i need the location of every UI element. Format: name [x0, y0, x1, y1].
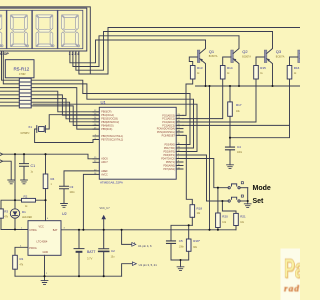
- svg-text:Q2: Q2: [242, 49, 248, 54]
- svg-text:R2: R2: [24, 194, 28, 198]
- transistor Q1 BC807: [197, 50, 200, 63]
- capacitor C2: [99, 230, 109, 276]
- svg-text:LED-RED: LED-RED: [22, 217, 32, 219]
- wire: display common wrap over top: [0, 7, 90, 74]
- connector arrow U1 pin 3,5,21: [132, 262, 136, 266]
- U2 pin name labels: [29, 226, 58, 255]
- svg-text:PB4(MISO): PB4(MISO): [101, 124, 113, 127]
- svg-text:C3: C3: [70, 185, 74, 189]
- ground below C5/R19: [177, 267, 184, 271]
- svg-text:rad: rad: [284, 284, 300, 294]
- wire: AVCC to rail: [83, 174, 99, 229]
- resistor R3 partial at edge: [0, 209, 3, 218]
- wire: VCC top-left feed: [3, 154, 100, 159]
- wire: R6 to PD1 over U1: [31, 84, 193, 148]
- display DIS1 4-digit 7-segment module: [0, 8, 87, 51]
- transistor Q4 BC807 partial at edge: [298, 50, 301, 63]
- svg-text:100n: 100n: [179, 247, 185, 249]
- ground below C1: [21, 180, 28, 184]
- U1 pin name labels: [101, 111, 175, 177]
- wire: R8 to PB0: [31, 91, 99, 112]
- svg-text:BC807A: BC807A: [276, 56, 285, 59]
- svg-text:C4: C4: [237, 145, 241, 149]
- svg-text:Set: Set: [253, 198, 265, 205]
- svg-text:Q1: Q1: [209, 49, 215, 54]
- connector arrow U1 pin 4,6: [132, 243, 136, 247]
- wire: to ground left: [3, 161, 12, 180]
- wire: X1 to PB6/XTAL1: [45, 115, 99, 129]
- resistor R13: [190, 66, 195, 80]
- svg-text:VCC: VCC: [39, 226, 44, 229]
- ground left edge: [8, 180, 15, 184]
- pushbutton S1 Mode: [228, 187, 230, 189]
- wire: display common pin 3 to Q3 collector rail: [76, 32, 273, 71]
- svg-text:Q3: Q3: [276, 49, 282, 54]
- wire: U2 GND pin to rail: [44, 255, 46, 280]
- wire: R9 to PB1: [31, 95, 99, 115]
- resistor R1: [13, 255, 18, 269]
- pushbutton S2 Set: [228, 200, 230, 202]
- U1 left pin stubs: [93, 112, 99, 163]
- resistor R20: [216, 213, 221, 228]
- svg-text:3.7V: 3.7V: [87, 257, 93, 261]
- svg-text:PC6/RESET: PC6/RESET: [162, 134, 176, 137]
- svg-text:R16: R16: [294, 66, 300, 70]
- svg-text:U2: U2: [62, 212, 67, 216]
- ground below C4: [227, 165, 234, 169]
- svg-text:ATMEGA8_32PA: ATMEGA8_32PA: [100, 181, 123, 185]
- wire: PB6 stub: [93, 135, 99, 137]
- svg-text:D1: D1: [22, 210, 26, 214]
- MCU U1 ATMEGA8 box: [99, 107, 176, 179]
- digit cell 3: [32, 10, 57, 48]
- digit cell 4: [58, 10, 83, 48]
- svg-text:U1 pin 3, 5, 21: U1 pin 3, 5, 21: [139, 263, 158, 267]
- wire: VCC 3.7V rail: [61, 229, 236, 231]
- wire: Set node to R21: [222, 201, 236, 213]
- svg-text:U1: U1: [101, 100, 107, 105]
- svg-text:R15: R15: [260, 66, 266, 70]
- resistor R14: [220, 66, 225, 80]
- wire: Mode node to R20: [217, 188, 219, 213]
- ground below buttons: [244, 204, 251, 208]
- svg-text:VCC_3.7: VCC_3.7: [100, 207, 111, 210]
- wire: PROG pin to R1: [15, 247, 28, 255]
- svg-text:C5: C5: [179, 239, 183, 243]
- ground below U2: [41, 281, 48, 285]
- wire: R11 to PB3: [31, 102, 99, 122]
- wire: C4 node U-turn right: [230, 125, 290, 137]
- wire: ground rail to U1 pin 3,5,21 connector: [122, 264, 133, 277]
- digit cell 2: [7, 10, 32, 48]
- svg-text:AVCC: AVCC: [101, 173, 108, 176]
- wire: display segment leads from left edge: [0, 88, 19, 106]
- wire: PD4 to Mode button: [183, 159, 228, 188]
- wire: VCC rail to bottom rail long vertical: [209, 86, 211, 230]
- wire: AREF to C3: [64, 171, 99, 186]
- svg-text:BATT: BATT: [87, 250, 95, 254]
- resistor R4: [43, 174, 48, 189]
- digit cell 1: [0, 10, 6, 48]
- svg-text:R1: R1: [20, 257, 24, 261]
- resistor network R5-R12 label box: [5, 60, 34, 78]
- svg-text:LTC4054: LTC4054: [37, 240, 48, 244]
- transistor Q2 BC807: [231, 50, 234, 63]
- watermark Pa letters: [284, 253, 315, 285]
- svg-text:X1: X1: [28, 125, 32, 129]
- resistor R19: [186, 239, 191, 251]
- svg-text:100n: 100n: [70, 192, 76, 194]
- svg-text:C OP: C OP: [0, 52, 9, 56]
- wire: PC6 reset to R18: [183, 135, 192, 204]
- svg-text:100n: 100n: [237, 152, 243, 154]
- charger U2 LTC4054 box: [28, 221, 61, 256]
- power flag VCC_3.7: [103, 219, 105, 230]
- wire: display common pin 1 to Q1 collector rail: [70, 40, 206, 63]
- svg-text:R4: R4: [51, 177, 55, 181]
- svg-text:PROG: PROG: [29, 247, 36, 250]
- svg-text:PB1(OC1A): PB1(OC1A): [101, 114, 114, 117]
- wire: R12 to PB4: [31, 106, 99, 126]
- off-page connector left top: [0, 152, 3, 156]
- resistor R15: [254, 66, 259, 80]
- svg-text:R20: R20: [222, 215, 228, 219]
- wire: R13 to PC0: [183, 79, 193, 115]
- wire: vertical from top rail to D1: [14, 154, 16, 200]
- wire: ground rail bottom left: [15, 275, 122, 277]
- U1 right pin stubs: [176, 115, 183, 169]
- capacitor C5: [167, 241, 176, 244]
- wire: display segment a lead: [2, 51, 20, 80]
- svg-text:R19*: R19*: [193, 239, 201, 243]
- svg-text:R18: R18: [197, 206, 203, 210]
- svg-text:R3: R3: [4, 209, 8, 213]
- svg-text:R5-R12: R5-R12: [14, 66, 30, 71]
- wire: R10 to PB2: [31, 99, 99, 119]
- resistor R2: [22, 198, 36, 202]
- crystal X1: [39, 127, 45, 132]
- wire: display common pin 2 to Q2 collector rail: [73, 36, 239, 67]
- wire: X1 to PB7/XTAL2: [35, 129, 100, 143]
- svg-text:Mode: Mode: [253, 185, 271, 192]
- svg-text:R21: R21: [240, 215, 246, 219]
- svg-text:C1: C1: [31, 164, 36, 168]
- capacitor C4: [226, 147, 235, 150]
- designator labels: [0, 49, 300, 267]
- ground below C3: [61, 204, 68, 208]
- svg-text:470R: 470R: [19, 72, 26, 76]
- capacitor C3: [60, 186, 69, 203]
- wire: R5 to PD0 over U1: [31, 80, 190, 144]
- transistor Q3 BC807: [264, 50, 267, 63]
- wire: rail to U1 pin 4,6 connector: [122, 230, 132, 245]
- resistor R17: [228, 102, 233, 116]
- LED D1: [10, 209, 19, 218]
- wire: R14 to PC1: [183, 79, 223, 119]
- battery BATT 3.7V: [74, 230, 84, 276]
- svg-text:BAT: BAT: [53, 229, 58, 232]
- wire: CHRG net to U2: [1, 229, 28, 231]
- wire: display segment b lead: [3, 51, 19, 84]
- wire: R15 to PC2: [183, 79, 256, 122]
- svg-text:CHRG: CHRG: [29, 229, 36, 232]
- wire: buttons to ground: [247, 188, 249, 204]
- svg-text:Pan: Pan: [284, 253, 300, 283]
- off-page connector left second: [0, 159, 3, 163]
- wire: extra segment line to PD2: [33, 104, 197, 151]
- wire: R16 to PC3: [183, 79, 290, 125]
- resistor network R5-R12 body: [19, 78, 31, 108]
- wire: PD3 to Set button: [183, 155, 228, 201]
- svg-text:PD7(AIN1): PD7(AIN1): [163, 168, 175, 171]
- resistor R16: [287, 66, 292, 80]
- resistor R18: [190, 205, 195, 218]
- emitter VCC rail top right: [196, 85, 302, 87]
- resistor R21: [234, 213, 239, 225]
- wire: C5 R19 to ground: [171, 243, 189, 266]
- svg-text:U1 pin 4, 6: U1 pin 4, 6: [138, 244, 152, 248]
- svg-text:R14: R14: [227, 66, 233, 70]
- svg-text:PB5(SCK): PB5(SCK): [101, 128, 112, 131]
- wire: display common pin 4 to Q4 collector rail: [79, 28, 301, 75]
- wire: reset RC net: [171, 225, 192, 241]
- capacitor C1: [20, 154, 29, 180]
- svg-text:PB7(TOSC2/XTAL2): PB7(TOSC2/XTAL2): [101, 138, 123, 141]
- svg-text:BC807A: BC807A: [209, 55, 218, 58]
- svg-text:R17: R17: [236, 103, 242, 107]
- svg-text:1234: 1234: [69, 52, 81, 56]
- svg-text:ADC7: ADC7: [101, 161, 108, 164]
- svg-text:C2: C2: [111, 249, 115, 253]
- svg-text:32768Hz: 32768Hz: [20, 133, 30, 135]
- svg-text:GND: GND: [43, 251, 49, 254]
- svg-text:R13: R13: [197, 66, 203, 70]
- svg-text:BC807A: BC807A: [242, 56, 251, 59]
- wire: R7 to PB5: [31, 88, 99, 130]
